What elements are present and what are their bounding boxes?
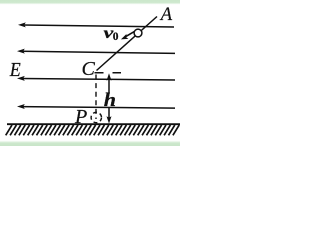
h dimension arrow upper segment (107, 73, 112, 123)
arrowhead field line 3 (17, 76, 25, 81)
svg-text:C: C (82, 58, 96, 80)
field line 2 (22, 51, 175, 53)
arrowhead field line 4 (17, 104, 25, 109)
ground hatching (6, 125, 180, 135)
svg-text:P: P (74, 106, 87, 128)
ground line (7, 123, 180, 125)
svg-text:A: A (159, 5, 173, 25)
field line 4 (22, 107, 175, 109)
field line 3 (22, 79, 175, 81)
field line 1 (top) (17, 22, 175, 109)
dashed circle at P (91, 112, 101, 122)
arrowhead field line 2 (17, 49, 25, 54)
velocity arrow v0 (121, 31, 135, 39)
particle circle on trajectory (134, 29, 142, 37)
bottom green border band (0, 141, 180, 147)
trajectory line A to C (97, 17, 158, 71)
svg-text:0: 0 (113, 31, 119, 43)
svg-text:E: E (9, 59, 21, 81)
dashed horizontal from C level (95, 72, 122, 74)
dashed vertical from C down to P (95, 75, 97, 120)
h dimension arrow lower segment (108, 107, 110, 120)
arrowhead field line 1 (18, 22, 26, 27)
svg-text:h: h (104, 91, 116, 111)
